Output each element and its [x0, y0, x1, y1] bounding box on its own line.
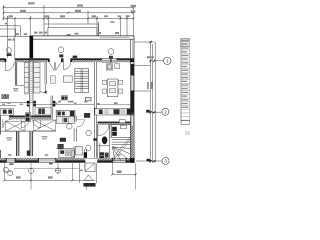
bottom dim ticks — [3, 173, 136, 181]
terrace extension vline — [86, 187, 88, 190]
front wall band segment D — [71, 58, 102, 60]
right dim vline 1 — [134, 42, 163, 163]
extension line x127 — [126, 16, 128, 36]
axis circle 2 — [162, 108, 169, 115]
closet edge lines x25 — [24, 62, 26, 95]
door tag circle D1 — [67, 124, 72, 129]
outlined label tag — [119, 120, 125, 123]
bath wall band right unit — [98, 122, 131, 124]
entrance double door leaf left — [6, 62, 71, 71]
closet top-left pair — [24, 63, 40, 93]
porch column line x7.4 — [6, 36, 8, 58]
hline y104.8 dim right — [97, 104, 134, 106]
dimension ticks top — [2, 6, 134, 19]
kitchen lower cabinet — [56, 117, 75, 124]
hline y131 — [0, 130, 56, 132]
boxed label TAG1 — [84, 113, 90, 117]
solid segment upper — [131, 64, 134, 76]
right dim text small — [147, 56, 154, 89]
vestibule door hinge blob — [45, 91, 47, 94]
porch edge line left — [0, 35, 30, 37]
extension line left — [3, 5, 5, 21]
chairs — [103, 80, 123, 93]
axis circle 3 — [162, 158, 169, 165]
boxed label TAG3 — [58, 144, 64, 148]
dining table right unit — [107, 79, 118, 97]
dimension line top row1 — [4, 6, 134, 8]
sofa table living left unit — [63, 76, 72, 82]
top wall inner line — [30, 38, 134, 40]
extension line right x133.5 — [133, 5, 135, 36]
shower blob bedroom2 — [27, 151, 30, 156]
connector to circle 3 — [136, 160, 162, 162]
porch column line x15 — [14, 36, 16, 58]
sideboard — [106, 64, 119, 70]
bath door arc left1 — [21, 120, 40, 128]
window right wall upper-mid — [131, 76, 133, 91]
axis marker circle A left — [6, 48, 11, 53]
entrance door right unit — [63, 62, 65, 69]
wall solid: stair wall x30 — [30, 36, 34, 58]
extension top corner — [134, 41, 154, 43]
bottom dim text — [16, 170, 122, 178]
extension line x97 — [96, 16, 98, 36]
top wall outer line — [0, 36, 134, 39]
schedule table bottom border — [181, 119, 190, 121]
hatched segment lower — [131, 126, 134, 158]
front wall corner solid — [130, 58, 134, 62]
winder fan treads — [112, 147, 130, 149]
bath door arc right — [98, 125, 109, 136]
bedroom wall x17.5 — [16, 131, 19, 156]
roof overhang outline outer — [44, 24, 99, 36]
bottom dim line — [4, 179, 95, 181]
extension line x15 — [14, 18, 16, 36]
toilet right unit — [102, 136, 108, 144]
bottom window 1 — [6, 157, 15, 159]
front wall band segment B — [15, 58, 49, 60]
stair S1 left unit — [75, 69, 89, 93]
solid segment mid — [131, 91, 134, 113]
axis pass tick — [110, 59, 111, 63]
terrace dim text — [80, 170, 83, 172]
front band window — [102, 58, 116, 60]
hline wall y102.5 — [0, 102, 33, 104]
extension line x48.5 — [47, 16, 49, 28]
hinge dots entrance — [48, 59, 50, 62]
door tag circle D2 — [86, 130, 91, 135]
extension line x30 — [29, 16, 31, 36]
hline y104.5 dim — [34, 104, 95, 106]
window dim dashes — [8, 154, 121, 156]
bath door arc left2 — [33, 120, 41, 128]
X void rect right — [34, 120, 56, 131]
wc labels dark — [99, 152, 104, 155]
bottom wall band — [0, 158, 135, 163]
schedule table text dashes — [182, 40, 189, 108]
kitchen counter upper right unit — [56, 110, 75, 116]
bath wall x51 — [50, 96, 52, 120]
washer pair left — [2, 95, 9, 99]
bath door arc left edge — [3, 119, 12, 128]
right dim vline 2 — [152, 44, 154, 163]
connector to circle 1 — [154, 60, 163, 62]
extension line x120.5 — [120, 16, 122, 36]
axis marker circle C right — [108, 49, 114, 55]
porch door left — [5, 62, 7, 71]
hline y151.5 — [56, 148, 74, 150]
extension line x98.6 — [98, 22, 100, 36]
vestibule door arc — [45, 85, 47, 94]
stair S3 winder bottom right — [110, 124, 131, 160]
door arc x77 — [77, 120, 85, 128]
stair cut line — [111, 138, 130, 160]
washbasin counter left — [1, 108, 14, 115]
window sill bump — [73, 56, 78, 58]
dim text row y32 — [5, 23, 119, 41]
bottom axis circles — [3, 167, 8, 172]
top wall window glazing — [100, 37, 129, 39]
bottom extension lines — [4, 163, 135, 190]
extension line x7.4 — [6, 16, 8, 36]
cabinet with dark boxes — [61, 96, 67, 100]
party wall x94.5 — [94, 62, 96, 158]
entrance double door leaf right — [56, 62, 61, 70]
stamp mark below table — [185, 131, 190, 135]
vestibule wall x45.7 — [44, 62, 46, 84]
bottom dim line right — [112, 173, 135, 175]
X void rect left — [5, 120, 55, 131]
middle wall band hatched left — [9, 116, 51, 120]
extension y91 — [134, 90, 151, 92]
extension line x88 — [87, 11, 89, 25]
terrace edge L line 1 — [0, 26, 21, 36]
room label box right of party area — [86, 97, 92, 101]
axis circle 1 — [164, 57, 171, 64]
dimension line top row3 — [4, 17, 134, 19]
roof overhang outline inner — [48, 28, 97, 36]
door hinge dot left porch — [5, 59, 7, 62]
corner blob — [130, 158, 135, 163]
hline y105.5 — [0, 105, 16, 107]
front wall band segment A — [0, 56, 134, 94]
terrace door opening — [85, 157, 97, 159]
terrace edge L line 2 — [0, 29, 16, 36]
extension line x44 — [43, 5, 45, 24]
hall wall x15.5 — [15, 62, 52, 119]
kitchen counter bottom right unit — [59, 149, 75, 158]
fixture cluster x25-31 — [25, 113, 30, 122]
wall x85.5 stub + blob — [84, 149, 87, 158]
right dim tick blob2 — [146, 110, 150, 113]
bedroom wall x31 — [30, 131, 33, 156]
window right wall mid — [131, 112, 133, 126]
hob burners kitchen — [65, 150, 74, 156]
pavement line below band — [14, 168, 79, 170]
bathroom counter right unit top — [95, 109, 134, 116]
right dim vline 3 — [154, 42, 156, 163]
boxed label TAG2 — [60, 138, 66, 142]
wc dark — [114, 109, 120, 114]
front wall band segment C — [61, 58, 64, 62]
schedule table right edge — [181, 39, 190, 124]
dark label box bottom — [84, 183, 96, 187]
window right wall upper — [131, 39, 133, 62]
outlined label tag 2 — [121, 125, 127, 128]
terrace door symbol box — [79, 163, 96, 183]
sink dark — [99, 110, 103, 115]
triangle symbol — [84, 175, 93, 181]
dimension line top row2 — [4, 12, 134, 14]
toilets back to back at stair wall — [27, 101, 56, 107]
wall x75.4 — [74, 116, 77, 152]
door tag circle D3 — [86, 145, 91, 150]
dimension text top (tiny) — [9, 2, 137, 23]
room label dashes — [2, 88, 47, 141]
right dim ticks bold — [150, 41, 156, 162]
axis marker circle B center — [58, 47, 64, 53]
ladder rungs stair wall — [30, 63, 33, 100]
tub dark — [127, 109, 134, 115]
front wall band segment E — [117, 58, 131, 60]
hline y145.8 wc top — [98, 145, 110, 147]
right dim tick blob3 — [147, 159, 150, 162]
right outer wall — [131, 36, 134, 163]
left cropped wall — [0, 116, 2, 159]
terrace symbol side lines — [78, 163, 80, 183]
washer pair 2 counter — [35, 108, 51, 115]
bottom window 3 — [113, 157, 127, 159]
vestibule shelf rect — [51, 76, 56, 83]
extension y65 — [134, 64, 151, 66]
connector to circle 2 — [146, 111, 162, 113]
stair wall lower part ladder — [30, 58, 33, 115]
mirror cabinets labels — [105, 109, 109, 114]
bidet pair dark — [112, 127, 117, 131]
toilets at bath wall x52 — [53, 101, 55, 104]
wc wall x98.5 — [98, 125, 100, 158]
party wall dark segment — [94, 108, 97, 113]
bottom window 2 — [38, 157, 55, 159]
wall stub x110.8 — [110, 125, 112, 138]
